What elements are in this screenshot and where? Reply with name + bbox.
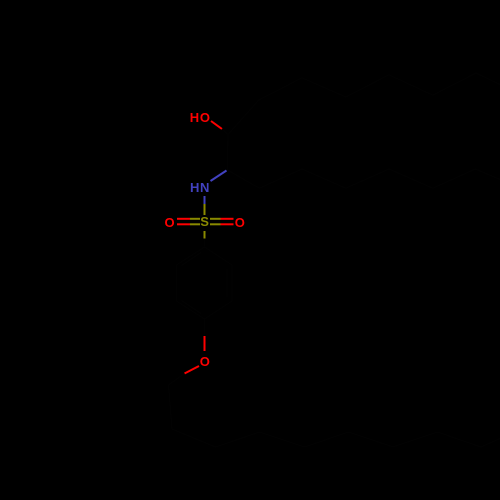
bond O-C1 bbox=[211, 121, 222, 129]
svg-text:O: O bbox=[165, 215, 175, 230]
svg-text:HN: HN bbox=[190, 180, 210, 195]
bond O2-CH2 two-tone bbox=[185, 366, 200, 374]
svg-text:O: O bbox=[200, 354, 210, 369]
upper alkyl chain from C1 bbox=[228, 73, 500, 135]
benzene ring R1 bbox=[177, 247, 233, 319]
bond N-C2 bbox=[211, 171, 227, 182]
svg-text:S: S bbox=[200, 214, 209, 229]
wire C1-C2 bbox=[227, 135, 230, 171]
bond aryl-O2 two-tone bbox=[204, 319, 206, 336]
svg-text:O: O bbox=[235, 215, 245, 230]
double bond S=O left bbox=[177, 219, 200, 225]
bottom alkyl chain from CH2a bbox=[169, 385, 500, 447]
double bond S=O right bbox=[210, 219, 234, 225]
bond N-S two-tone bbox=[204, 196, 206, 204]
bond S-C aryl two-tone bbox=[204, 231, 206, 239]
lower alkyl chain from C2 bbox=[228, 169, 500, 188]
double bond inner lines R1 bbox=[182, 253, 202, 266]
svg-text:HO: HO bbox=[190, 110, 211, 125]
